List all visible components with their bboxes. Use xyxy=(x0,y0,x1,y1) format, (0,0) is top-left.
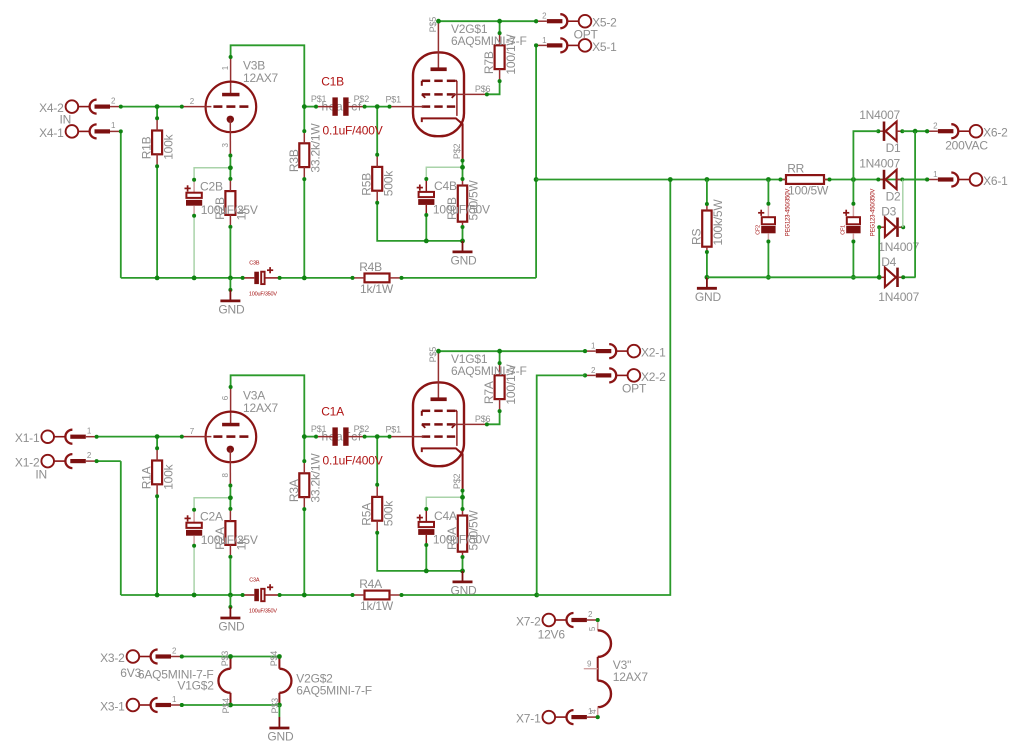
svg-text:P$1: P$1 xyxy=(311,424,327,434)
svg-text:1N4007: 1N4007 xyxy=(878,240,919,254)
svg-text:0.1uF/400V: 0.1uF/400V xyxy=(323,124,383,138)
svg-text:V1G$2: V1G$2 xyxy=(177,679,214,693)
svg-text:12AX7: 12AX7 xyxy=(243,401,279,415)
svg-text:GND: GND xyxy=(218,302,245,316)
svg-text:1: 1 xyxy=(542,36,547,45)
svg-text:PEG123-450/350V: PEG123-450/350V xyxy=(785,189,791,237)
svg-text:1: 1 xyxy=(933,170,938,179)
svg-text:D3: D3 xyxy=(881,205,896,219)
svg-text:100uF/350V: 100uF/350V xyxy=(249,292,277,298)
svg-text:D1: D1 xyxy=(886,141,901,155)
svg-text:200VAC: 200VAC xyxy=(945,139,988,153)
svg-text:C3A: C3A xyxy=(249,577,260,583)
svg-text:IN: IN xyxy=(35,468,47,482)
svg-text:P$6: P$6 xyxy=(475,414,491,424)
svg-text:C4B: C4B xyxy=(434,179,457,193)
svg-text:CF2: CF2 xyxy=(756,225,762,235)
svg-text:100uF/25V: 100uF/25V xyxy=(201,203,258,217)
svg-text:R1A: R1A xyxy=(140,466,154,489)
svg-text:P$4: P$4 xyxy=(269,651,279,667)
svg-text:R5A: R5A xyxy=(360,503,374,526)
svg-text:RR: RR xyxy=(787,162,804,176)
svg-text:12AX7: 12AX7 xyxy=(613,670,649,684)
svg-text:X5-1: X5-1 xyxy=(592,40,617,54)
svg-text:1N4007: 1N4007 xyxy=(878,290,919,304)
svg-text:33.2k/1W: 33.2k/1W xyxy=(309,123,323,173)
svg-text:100k: 100k xyxy=(161,463,175,489)
svg-text:D2: D2 xyxy=(886,189,901,203)
svg-text:R5B: R5B xyxy=(360,173,374,196)
svg-text:100uF/50V: 100uF/50V xyxy=(433,203,490,217)
svg-text:GND: GND xyxy=(267,730,294,744)
svg-text:P$2: P$2 xyxy=(452,143,462,159)
svg-text:100uF/350V: 100uF/350V xyxy=(249,609,277,615)
svg-text:2: 2 xyxy=(111,96,116,105)
svg-text:X7-2: X7-2 xyxy=(516,614,541,628)
svg-text:2: 2 xyxy=(588,610,593,619)
svg-text:OPT: OPT xyxy=(622,381,647,395)
svg-text:P$1: P$1 xyxy=(386,94,402,104)
svg-text:1N4007: 1N4007 xyxy=(859,108,900,122)
svg-text:1: 1 xyxy=(87,427,92,436)
svg-text:X1-1: X1-1 xyxy=(15,431,40,445)
svg-text:100k: 100k xyxy=(161,133,175,159)
svg-text:P$3: P$3 xyxy=(220,651,230,667)
svg-text:GND: GND xyxy=(695,290,722,304)
svg-text:R7B: R7B xyxy=(482,51,496,74)
svg-text:C4A: C4A xyxy=(434,509,457,523)
svg-text:C2A: C2A xyxy=(200,510,223,524)
svg-text:2: 2 xyxy=(190,97,195,106)
svg-text:12AX7: 12AX7 xyxy=(243,71,279,85)
svg-text:P$1: P$1 xyxy=(386,424,402,434)
svg-text:6AQ5MINI-7-F: 6AQ5MINI-7-F xyxy=(451,364,527,378)
svg-text:2: 2 xyxy=(933,122,938,131)
svg-text:2: 2 xyxy=(172,646,177,655)
svg-text:100/5W: 100/5W xyxy=(788,184,829,198)
svg-text:7: 7 xyxy=(190,427,195,436)
svg-text:X6-1: X6-1 xyxy=(983,174,1008,188)
svg-text:500k: 500k xyxy=(381,170,395,196)
svg-text:GND: GND xyxy=(218,620,245,634)
svg-text:X7-1: X7-1 xyxy=(516,712,541,726)
svg-text:RS: RS xyxy=(689,229,703,245)
svg-text:P$4: P$4 xyxy=(221,698,231,714)
svg-text:X4-1: X4-1 xyxy=(39,126,64,140)
svg-text:PEG123-450/350V: PEG123-450/350V xyxy=(870,189,876,237)
svg-text:OPT: OPT xyxy=(574,27,599,41)
svg-text:1N4007: 1N4007 xyxy=(859,156,900,170)
svg-text:X2-1: X2-1 xyxy=(641,346,666,360)
svg-text:100uF/50V: 100uF/50V xyxy=(433,533,490,547)
svg-text:CF1: CF1 xyxy=(841,225,847,235)
svg-text:R1B: R1B xyxy=(140,136,154,159)
svg-text:X3-1: X3-1 xyxy=(100,699,125,713)
svg-text:GND: GND xyxy=(450,253,477,267)
svg-text:1k/1W: 1k/1W xyxy=(360,282,394,296)
svg-text:12V6: 12V6 xyxy=(538,628,566,642)
svg-text:P$5: P$5 xyxy=(428,347,438,363)
svg-text:P$2: P$2 xyxy=(354,94,370,104)
svg-text:GND: GND xyxy=(450,583,477,597)
svg-text:P$1: P$1 xyxy=(311,94,327,104)
svg-text:P$5: P$5 xyxy=(428,17,438,33)
svg-text:500k: 500k xyxy=(381,500,395,526)
svg-text:100k/5W: 100k/5W xyxy=(711,199,725,246)
svg-text:IN: IN xyxy=(60,112,72,126)
svg-text:X3-2: X3-2 xyxy=(100,651,125,665)
svg-text:33.2k/1W: 33.2k/1W xyxy=(309,453,323,503)
svg-text:2: 2 xyxy=(87,451,92,460)
svg-text:1: 1 xyxy=(172,695,177,704)
svg-text:R3A: R3A xyxy=(287,479,301,502)
svg-text:C1A: C1A xyxy=(321,405,344,419)
svg-text:C1B: C1B xyxy=(321,75,344,89)
svg-text:C2B: C2B xyxy=(200,180,223,194)
svg-text:6AQ5MINI-7-F: 6AQ5MINI-7-F xyxy=(451,34,527,48)
svg-text:P$6: P$6 xyxy=(475,84,491,94)
svg-text:6AQ5MINI-7-F: 6AQ5MINI-7-F xyxy=(296,684,372,698)
svg-text:1: 1 xyxy=(111,121,116,130)
svg-text:P$2: P$2 xyxy=(354,424,370,434)
svg-text:2: 2 xyxy=(542,12,547,21)
svg-text:R7A: R7A xyxy=(482,381,496,404)
svg-text:1k/1W: 1k/1W xyxy=(360,599,394,613)
svg-text:0.1uF/400V: 0.1uF/400V xyxy=(323,454,383,468)
svg-text:R4B: R4B xyxy=(359,260,382,274)
svg-text:R4A: R4A xyxy=(359,577,382,591)
svg-text:X6-2: X6-2 xyxy=(983,126,1008,140)
svg-text:C3B: C3B xyxy=(249,260,260,266)
svg-text:P$2: P$2 xyxy=(452,473,462,489)
svg-text:R3B: R3B xyxy=(287,149,301,172)
svg-text:100uF/25V: 100uF/25V xyxy=(201,533,258,547)
svg-text:D4: D4 xyxy=(881,255,896,269)
